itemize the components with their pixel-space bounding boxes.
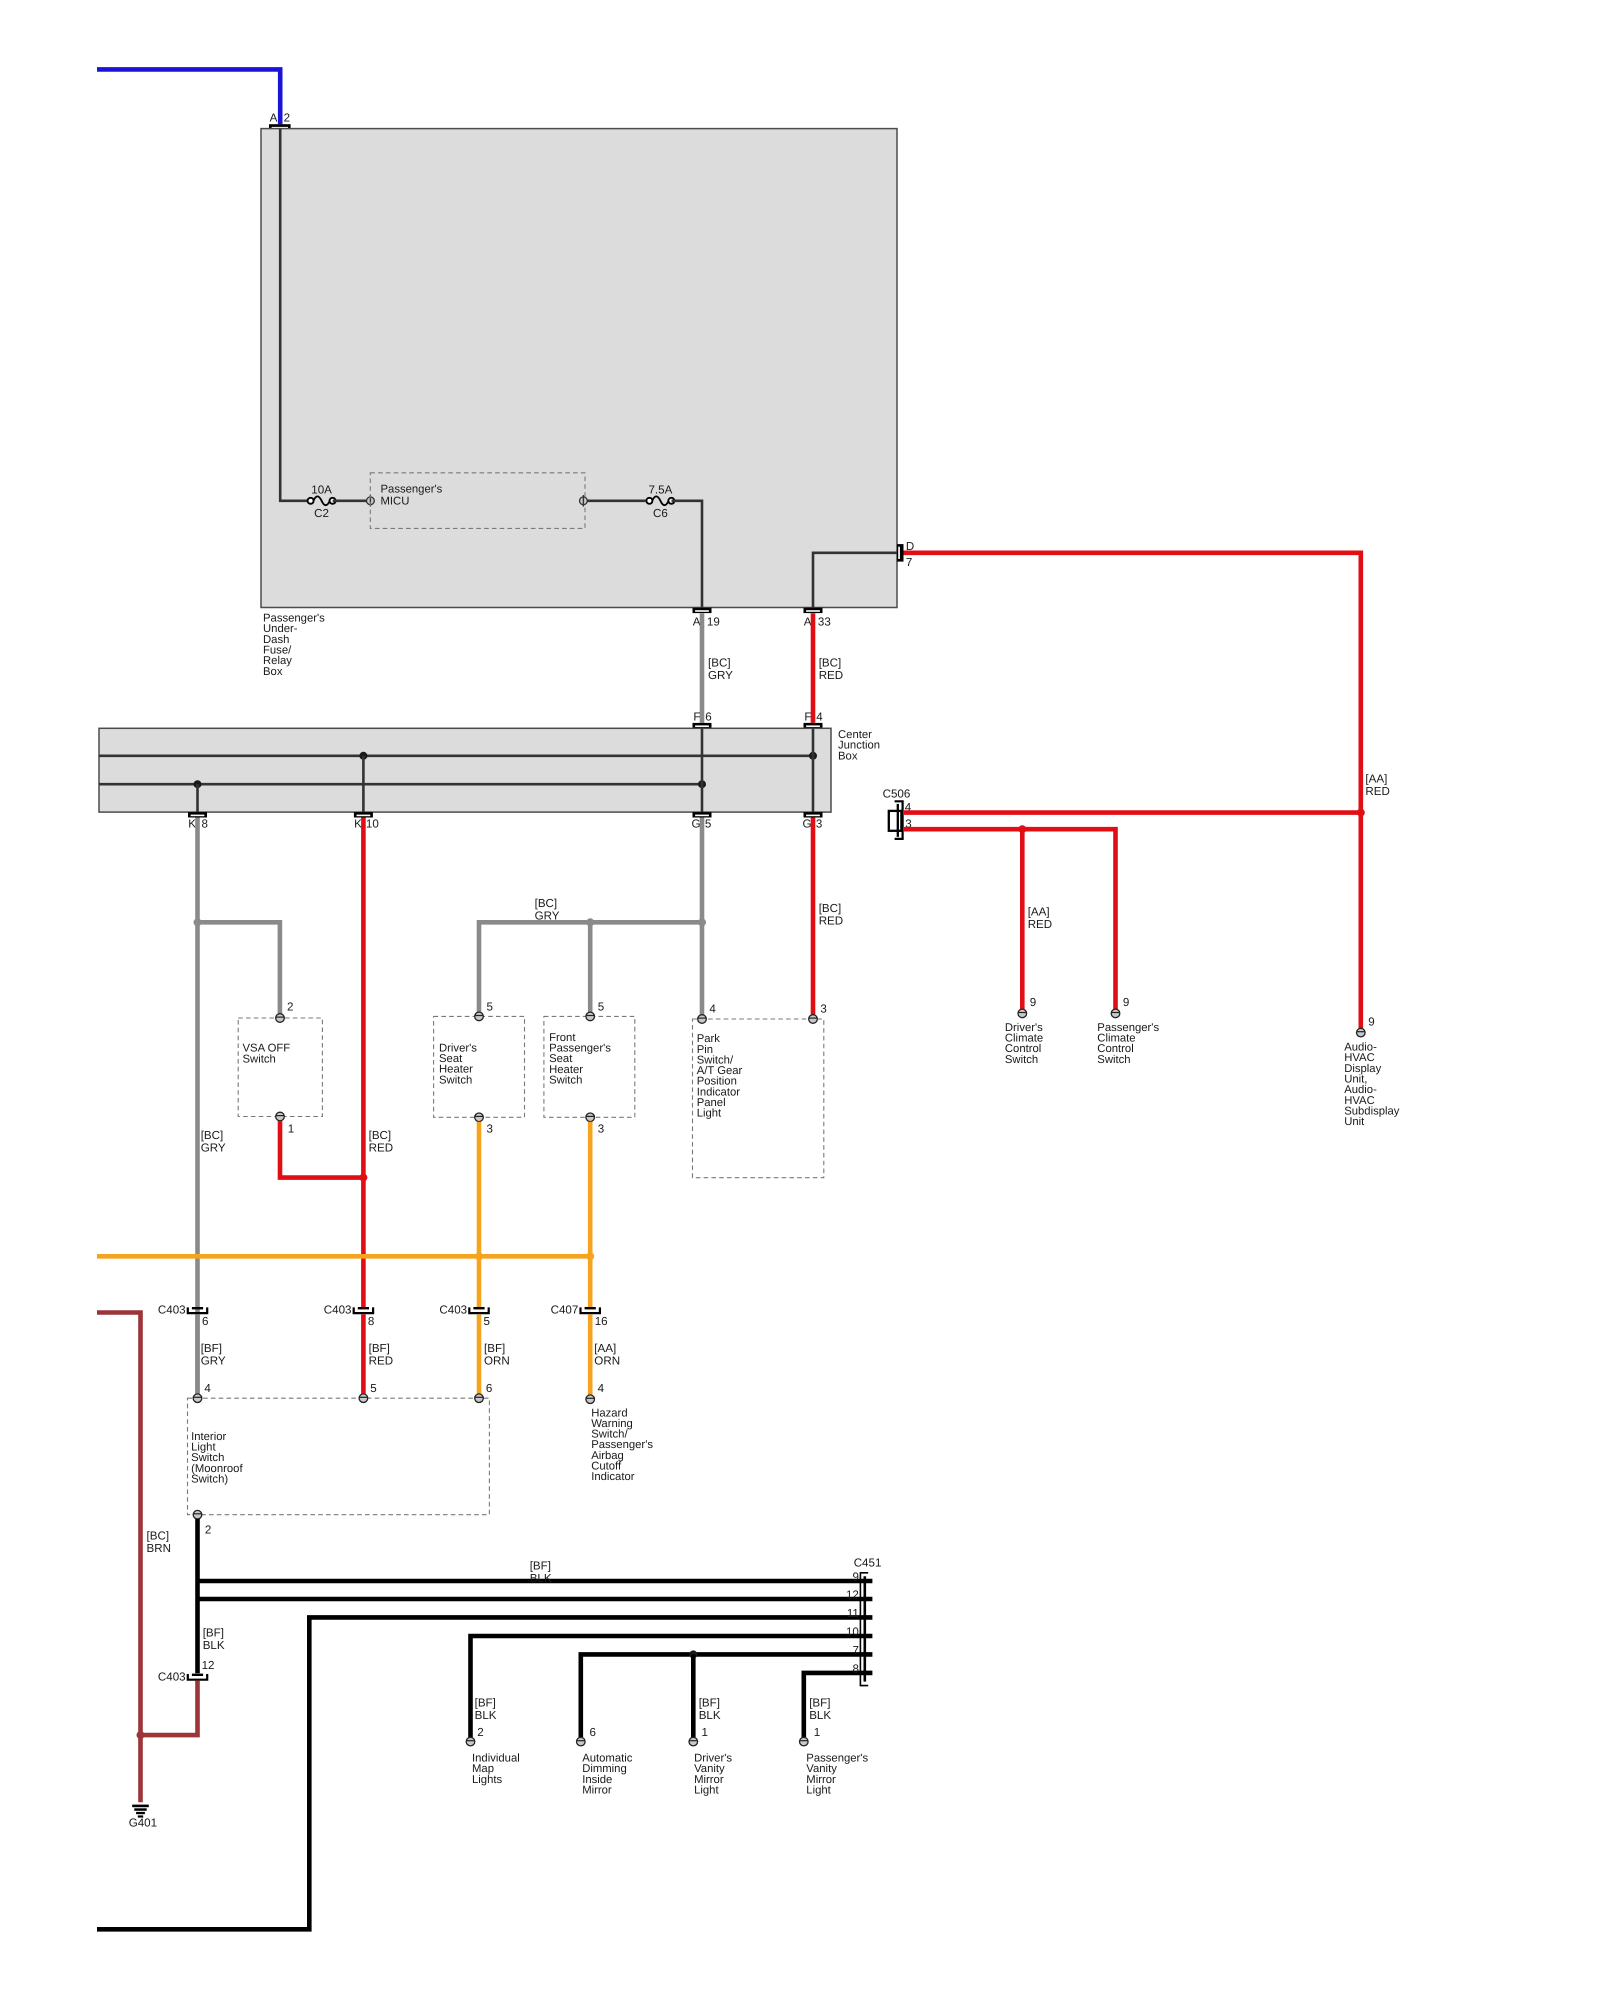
wire: fuse C2 to MICU [333,499,367,502]
svg-text:4: 4 [204,1382,211,1395]
connector C403 pin8 [324,1304,375,1329]
svg-text:3: 3 [816,818,822,831]
svg-text:12: 12 [846,1588,859,1601]
connector A19 [693,608,720,629]
label [AA] RED (climate feed) [1028,906,1052,931]
svg-text:RED: RED [1365,785,1389,798]
svg-text:G401: G401 [129,1816,157,1829]
svg-text:[AA]: [AA] [1028,906,1050,919]
terminal: interior light pin 5 [359,1382,377,1402]
wire: MICU to fuse C6 [587,499,645,502]
wire: black C451 pin 8 to passenger's vanity light [804,1673,873,1737]
svg-text:33: 33 [818,615,831,628]
wire: black C451 pin 10 to individual map lights [471,1636,873,1737]
svg-text:[BF]: [BF] [203,1627,224,1640]
Driver's Vanity Mirror Light label [694,1753,732,1797]
svg-text:F: F [693,711,700,724]
svg-text:8: 8 [852,1662,858,1675]
wire: red G3 down to park pin switch pin3 [811,818,816,1015]
wire: bus1 to K10 inside box [362,756,365,812]
svg-text:G: G [691,818,700,831]
svg-text:4: 4 [598,1382,605,1395]
label [BF] BLK (map lights) [475,1697,497,1722]
terminal: automatic dimming mirror pin 6 [577,1726,596,1746]
svg-text:Lights: Lights [472,1774,502,1786]
terminal: park pin switch pin 3 [809,1003,827,1024]
connector F6 [693,711,712,729]
connector G5 [691,812,711,831]
svg-text:Indicator: Indicator [591,1471,635,1483]
label [BC] GRY (K8) [201,1129,226,1154]
wire: gray below C403 to interior pin 4 [195,1314,200,1394]
ground G401 [129,1805,157,1830]
svg-text:ORN: ORN [484,1355,510,1368]
svg-text:2: 2 [287,1000,293,1013]
svg-text:3: 3 [598,1123,604,1136]
svg-text:7: 7 [852,1644,858,1657]
terminal: driver's seat heater pin 3 [475,1113,493,1136]
connector C506 [883,787,912,839]
wire: A33 up and right to D7 [813,553,897,608]
wire: red below C403 to interior pin 5 [361,1314,366,1394]
wire: C506 pin3 red to climate switches [903,829,1116,1009]
svg-text:[BC]: [BC] [708,657,731,670]
svg-text:5: 5 [370,1382,376,1395]
svg-text:3: 3 [820,1003,826,1016]
wire: orange front passenger seat heater to C407 [588,1122,593,1307]
label [BC] GRY [708,657,733,682]
svg-text:BLK: BLK [475,1709,497,1722]
svg-text:[AA]: [AA] [594,1342,616,1355]
wire: black to C451 pin 12 [198,1597,873,1602]
svg-text:9: 9 [1368,1015,1374,1028]
wire: gray G5 down to park pin switch [700,818,705,1015]
junction dot K8 on bus 2 [194,780,202,788]
wire: C506 pin4 red to AA RED junction [903,810,1359,815]
label [BF] RED [369,1342,393,1367]
svg-text:5: 5 [598,1000,604,1013]
svg-text:GRY: GRY [201,1355,226,1368]
wire: fuse C6 to A19 [672,501,703,608]
terminal: front passenger seat heater pin 5 [586,1000,604,1020]
label [BC] BRN [147,1530,171,1555]
Automatic Dimming Inside Mirror label [582,1753,633,1797]
svg-text:Switch: Switch [1097,1054,1130,1066]
Hazard Warning Switch label [591,1407,653,1483]
svg-text:RED: RED [819,914,843,927]
svg-text:9: 9 [1030,996,1036,1009]
svg-text:Switch): Switch) [191,1474,228,1486]
junction: driver's climate branch [1018,825,1026,833]
svg-text:9: 9 [852,1570,858,1583]
svg-text:Light: Light [694,1785,719,1797]
terminal: driver's vanity pin 1 [689,1726,708,1746]
svg-text:BLK: BLK [203,1639,225,1652]
wire: orange below C407 to hazard pin 4 [588,1314,593,1395]
terminal: MICU left pin [367,495,375,507]
terminal: MICU right pin [580,495,588,507]
svg-text:5: 5 [705,818,711,831]
svg-text:6: 6 [705,711,711,724]
svg-text:BRN: BRN [147,1542,171,1555]
svg-text:[BF]: [BF] [809,1697,830,1710]
wire: branch to driver's vanity light [691,1654,696,1737]
connector C407 pin16 [551,1304,608,1329]
svg-text:C403: C403 [158,1670,186,1683]
junction dot K10 on bus 1 [359,752,367,760]
terminal: driver's seat heater pin 5 [475,1000,493,1020]
svg-text:C407: C407 [551,1304,579,1317]
svg-text:3: 3 [487,1123,493,1136]
svg-text:[BC]: [BC] [819,902,842,915]
svg-text:C506: C506 [883,787,911,800]
svg-text:C451: C451 [854,1557,882,1570]
svg-text:[BC]: [BC] [369,1129,392,1142]
label [BF] BLK (pin 9 run) [530,1560,552,1585]
wire: black interior pin2 trunk [195,1519,200,1673]
fuse C2 10A [308,483,336,520]
Individual Map Lights label [472,1753,520,1786]
svg-text:G: G [802,818,811,831]
svg-text:10: 10 [366,818,379,831]
Driver's Climate Control Switch [1005,1022,1043,1066]
label [BF] BLK (passenger's vanity) [809,1697,831,1722]
junction dot F6 on bus 2 [698,780,706,788]
terminal: park pin switch pin 4 [698,1003,717,1024]
fuse C6 7.5A [646,483,674,520]
svg-text:Box: Box [838,750,858,762]
connector K8 [188,812,208,831]
svg-text:4: 4 [709,1003,716,1016]
bus wire 1 in junction box [99,754,814,757]
wire: orange bus [97,1254,590,1259]
connector K10 [354,812,379,831]
bus wire 2 in junction box [99,783,702,786]
svg-text:RED: RED [369,1355,393,1368]
wire: black from bottom edge to C451 pin 11 [97,1617,872,1929]
svg-text:12: 12 [202,1659,215,1672]
svg-text:BLK: BLK [530,1572,552,1585]
svg-text:Switch: Switch [549,1075,582,1087]
svg-text:10: 10 [846,1625,859,1638]
wire: gray branch to VSA pin 2 [198,922,280,1013]
connector F4 [804,711,824,729]
wire: branch down to driver's climate switch [1020,829,1025,1009]
svg-text:Light: Light [806,1785,831,1797]
svg-text:6: 6 [202,1315,208,1328]
svg-text:6: 6 [486,1382,492,1395]
label [BC] RED (G3) [819,902,843,927]
terminal: VSA pin 1 [276,1112,295,1135]
svg-text:C2: C2 [314,507,329,520]
svg-text:C403: C403 [158,1304,186,1317]
svg-text:GRY: GRY [201,1142,226,1155]
svg-text:Switch: Switch [439,1074,472,1086]
wire: [BC] BRN from left edge to G401 [97,1313,141,1803]
connector C403 pin12 [158,1659,215,1683]
svg-text:7: 7 [906,556,912,569]
svg-text:[BF]: [BF] [699,1697,720,1710]
label [BF] BLK (driver's vanity) [699,1697,721,1722]
Passenger's Under-Dash Fuse/Relay Box [261,129,897,678]
terminal: passenger's vanity pin 1 [800,1726,821,1746]
junction: gray bus at G5 [698,918,706,926]
junction: red at C506 pin4 line [1357,809,1365,817]
svg-text:1: 1 [702,1726,708,1739]
junction: driver's vanity branch [689,1650,697,1658]
label [BC] RED (K10) [369,1129,393,1154]
svg-text:C403: C403 [439,1304,467,1317]
svg-text:RED: RED [819,669,843,682]
terminal: VSA pin 2 [276,1000,294,1022]
label [AA] RED (audio feed) [1365,773,1389,798]
svg-text:Switch: Switch [1005,1054,1038,1066]
svg-text:[BF]: [BF] [484,1342,505,1355]
terminal: hazard warning pin 4 [586,1382,605,1403]
svg-text:BLK: BLK [809,1709,831,1722]
label [BC] GRY (seat heater bus) [535,897,560,922]
wire: F4 to G3 inside box [812,728,815,812]
svg-text:[BF]: [BF] [475,1697,496,1710]
svg-text:5: 5 [484,1315,490,1328]
svg-text:RED: RED [1028,918,1052,931]
svg-text:7.5A: 7.5A [648,483,672,496]
connector G3 [802,812,822,831]
Passenger's Climate Control Switch [1097,1022,1159,1066]
svg-text:5: 5 [487,1000,493,1013]
label [BC] RED [819,657,843,682]
svg-text:9: 9 [1123,996,1129,1009]
wire: [BC] GRY A19 to F6 [700,613,705,723]
terminal: passenger's climate pin 9 [1111,996,1129,1018]
svg-text:C6: C6 [653,507,668,520]
svg-text:K: K [188,818,196,831]
junction: gray branch to VSA [194,918,202,926]
wire: A2 down to fuse C2 [280,129,308,501]
svg-text:[BC]: [BC] [535,897,558,910]
terminal: front passenger seat heater pin 3 [586,1113,604,1136]
svg-text:RED: RED [369,1142,393,1155]
Front Passenger's Seat Heater Switch box [544,1016,635,1117]
wire: black C451 pin 7 to automatic dimming mirror [581,1654,873,1737]
svg-text:8: 8 [368,1315,374,1328]
VSA OFF Switch box [238,1018,322,1117]
Audio-HVAC Display Unit label [1344,1042,1400,1129]
svg-text:GRY: GRY [708,669,733,682]
svg-text:[BC]: [BC] [819,657,842,670]
wire: red K10 down to C403 [361,818,366,1308]
wire: blue battery feed to A2 [97,69,280,124]
connector A33 [804,608,831,629]
svg-text:[BF]: [BF] [201,1342,222,1355]
svg-text:A: A [693,615,701,628]
svg-text:2: 2 [284,112,290,125]
junction: red VSA join [359,1174,367,1182]
wire: [BC] RED A33 to F4 [811,613,816,723]
terminal: interior light pin 6 [475,1382,493,1402]
svg-text:[AA]: [AA] [1365,773,1387,786]
wire: F6 to G5 inside box [701,728,704,812]
svg-text:6: 6 [590,1726,596,1739]
svg-text:[BC]: [BC] [201,1129,224,1142]
svg-text:MICU: MICU [381,496,410,508]
svg-text:16: 16 [595,1315,608,1328]
svg-text:Box: Box [263,666,283,678]
svg-text:8: 8 [202,818,208,831]
svg-text:4: 4 [816,711,823,724]
svg-text:Light: Light [697,1108,722,1120]
junction: gray bus at front passenger drop [586,918,594,926]
wire: gray drop to front passenger seat heater [588,922,593,1012]
svg-text:C403: C403 [324,1304,352,1317]
svg-text:ORN: ORN [594,1355,620,1368]
terminal: audio-HVAC pin 9 [1357,1015,1375,1037]
wire: bus2 to K8 inside box [196,784,199,812]
svg-text:A: A [804,615,812,628]
terminal: interior light pin 4 [193,1382,211,1402]
svg-text:2: 2 [477,1726,483,1739]
Park Pin Switch box [693,1019,824,1178]
connector C451 [846,1557,881,1686]
wire: orange below C403 to interior pin 6 [477,1314,482,1394]
svg-text:GRY: GRY [535,910,560,923]
svg-text:[BF]: [BF] [530,1560,551,1573]
Center Junction Box [99,728,880,812]
svg-text:Switch: Switch [243,1054,276,1066]
wire: maroon link C403-12 to ground wire [141,1681,198,1736]
connector A2 on fuse box [269,112,291,130]
Passenger's MICU dashed box [370,473,585,529]
svg-text:10A: 10A [311,483,332,496]
svg-text:1: 1 [814,1726,820,1739]
wire: [BF] BLK to C451 pin 9 [198,1579,873,1584]
label [BF] BLK (trunk) [203,1627,225,1652]
connector C403 pin5 [439,1304,490,1329]
connector D7 on fuse box right edge [897,540,914,569]
Interior Light Switch box [188,1398,490,1515]
connector C403 pin6 [158,1304,209,1329]
Passenger's Vanity Mirror Light label [806,1753,868,1797]
wire: gray seat-heater bus [479,922,702,1012]
svg-text:2: 2 [205,1523,211,1536]
label [AA] ORN [594,1342,620,1367]
wire: red VSA pin1 to K10 red [280,1121,363,1178]
label [BF] ORN [484,1342,510,1367]
svg-text:K: K [354,818,362,831]
junction: orange at driver seat heater drop [475,1252,483,1260]
terminal: individual map lights pin 2 [466,1726,483,1746]
wire: gray K8 down to interior light switch [195,818,200,1394]
svg-text:BLK: BLK [699,1709,721,1722]
label [BF] GRY [201,1342,226,1367]
junction: orange at hazard drop [586,1252,594,1260]
svg-text:VSA OFF: VSA OFF [243,1042,291,1054]
wire: [AA] RED from D7 to Audio-HVAC unit [904,553,1361,1029]
terminal: driver's climate pin 9 [1018,996,1036,1018]
svg-text:1: 1 [288,1122,294,1135]
wire: orange driver's seat heater to C403 [477,1122,482,1307]
junction dot F4 on bus 1 [809,752,817,760]
svg-text:Unit: Unit [1344,1116,1365,1128]
svg-text:F: F [804,711,811,724]
Driver's Seat Heater Switch box [434,1016,525,1117]
svg-text:A: A [270,112,278,125]
svg-text:Passenger's: Passenger's [381,484,443,496]
svg-text:Mirror: Mirror [582,1785,612,1797]
svg-text:19: 19 [707,615,720,628]
svg-text:[BF]: [BF] [369,1342,390,1355]
svg-text:11: 11 [847,1607,859,1620]
junction: maroon at C403-12 link [137,1731,145,1739]
svg-text:[BC]: [BC] [147,1530,170,1543]
terminal: interior light pin 2 [193,1510,211,1536]
